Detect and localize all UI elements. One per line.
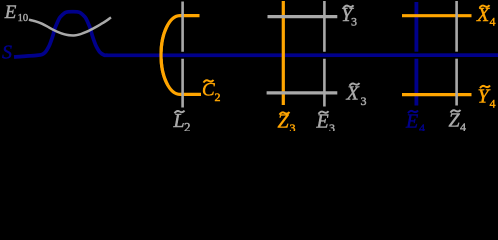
wire: gray top rail Y3 (middle group)	[268, 15, 338, 18]
svg-text:4: 4	[419, 121, 425, 131]
label X4 orange top right	[476, 4, 496, 29]
wire: main blue line S with soliton bump	[14, 12, 498, 57]
svg-text:E: E	[4, 2, 17, 23]
wire: gray vertical line L2	[181, 2, 184, 108]
wire: blue vertical line E4 (right group)	[414, 2, 418, 106]
brace C2: orange rounded C-bracket	[161, 16, 201, 95]
wire: main blue line S black halo	[14, 12, 498, 57]
svg-text:E: E	[316, 111, 329, 132]
wire: orange top rail X4 (right group)	[402, 14, 472, 17]
label X3 tilde	[346, 83, 367, 109]
svg-text:4: 4	[460, 120, 466, 131]
svg-text:2: 2	[215, 90, 221, 104]
label S	[2, 41, 12, 63]
wire: brace C2 left side redraw over blue	[161, 25, 168, 85]
label Z4 tilde gray	[449, 110, 467, 135]
wire: gray vertical line Z4 (right group)	[455, 1, 458, 106]
label E10	[4, 2, 28, 24]
wire: gray envelope curve E10	[29, 17, 111, 35]
svg-text:Z: Z	[449, 110, 461, 132]
svg-text:S: S	[2, 41, 12, 63]
label C2 tilde	[202, 80, 221, 105]
svg-text:L: L	[173, 110, 185, 131]
svg-text:3: 3	[361, 94, 367, 108]
svg-text:4: 4	[490, 15, 496, 29]
label E4 blue	[405, 111, 425, 136]
svg-text:Z: Z	[278, 111, 290, 132]
wire: orange vertical line Z3 (middle group)	[282, 1, 285, 105]
svg-text:X: X	[476, 4, 490, 26]
label Z3 tilde	[278, 111, 296, 136]
svg-text:3: 3	[351, 15, 357, 29]
label E3 tilde	[316, 111, 336, 136]
label L2 tilde	[173, 110, 191, 135]
label Y4 orange right	[478, 86, 496, 111]
wire: gray bottom rail X3 (middle group)	[267, 91, 338, 94]
svg-text:2: 2	[184, 120, 191, 132]
svg-text:X: X	[346, 83, 360, 105]
svg-text:4: 4	[490, 97, 496, 111]
svg-text:C: C	[202, 80, 215, 101]
svg-text:3: 3	[329, 121, 335, 131]
svg-text:3: 3	[290, 121, 296, 131]
svg-text:E: E	[405, 111, 418, 132]
wire: gray vertical line E3 (middle group)	[323, 1, 326, 107]
label Y3 tilde	[341, 4, 357, 29]
svg-text:10: 10	[18, 13, 29, 24]
wire: orange bottom rail Y4 (right group)	[402, 93, 472, 96]
